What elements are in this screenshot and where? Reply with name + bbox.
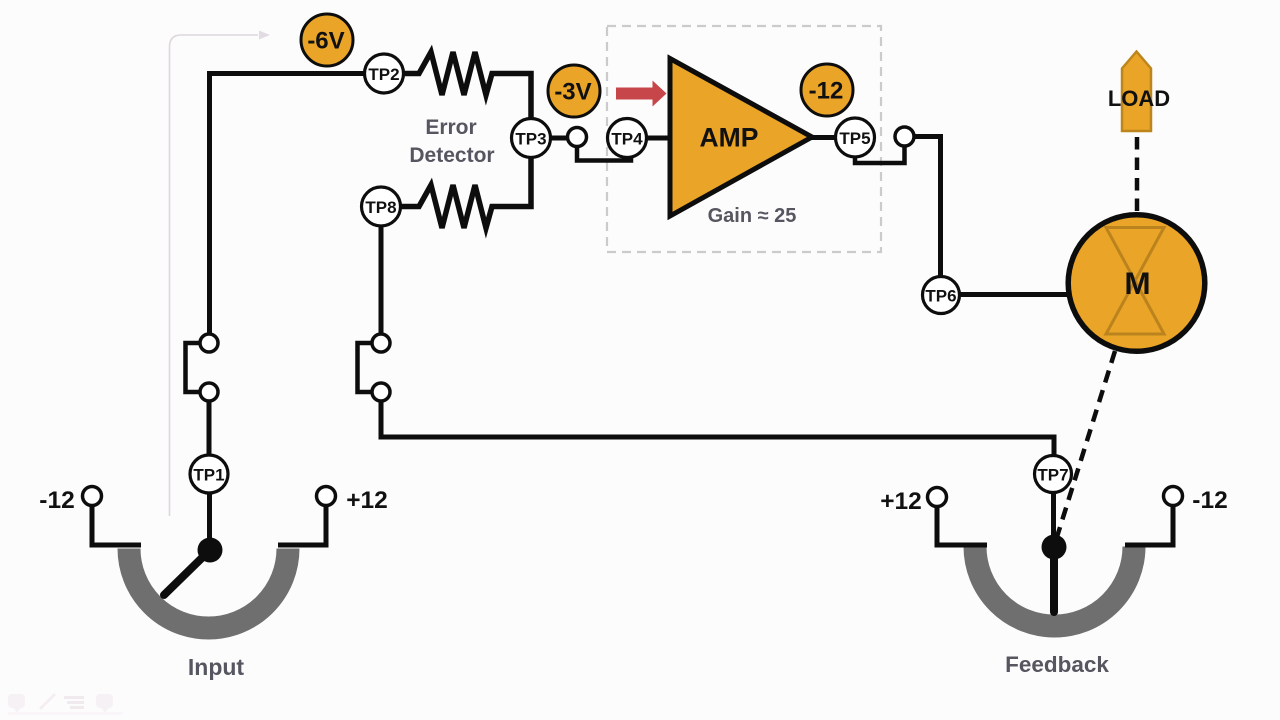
switch link S2 bracket (right) <box>358 343 373 392</box>
wire: TP7 to feedback wiper <box>1051 492 1056 544</box>
svg-text:Error: Error <box>425 116 476 139</box>
voltage label -12 <box>801 64 853 116</box>
svg-text:AMP: AMP <box>700 123 759 153</box>
test point TP2 <box>365 54 404 93</box>
wire: TP2 to left rail and down to input switch <box>210 74 365 335</box>
switch S2 contact bottom <box>372 383 390 401</box>
switch S1 contact bottom <box>200 383 218 401</box>
wire: S2 down and across to TP7 <box>381 401 1054 456</box>
resistor R2 (error detector lower) <box>401 157 531 228</box>
test point TP7 <box>1035 456 1072 493</box>
feedback terminal -12 wire <box>1125 503 1173 545</box>
wire: TP8 down to input link switch <box>379 227 384 335</box>
svg-text:Detector: Detector <box>409 144 494 167</box>
faint toolbar icons bottom-left <box>8 694 123 715</box>
wire: post B to TP6 <box>913 137 941 278</box>
switch link S1 bracket (left) <box>186 343 201 392</box>
LOAD arrow <box>1122 52 1151 132</box>
svg-text:TP5: TP5 <box>839 129 870 148</box>
svg-text:-12: -12 <box>809 78 844 105</box>
voltage label -3V <box>548 65 600 117</box>
input terminal -12 wire <box>92 503 141 545</box>
amplifier dashed enclosure <box>607 26 881 252</box>
svg-text:+12: +12 <box>880 488 922 515</box>
wire: TP1 to input wiper <box>207 492 212 548</box>
svg-text:-6V: -6V <box>307 28 344 55</box>
faint annotation swoosh arrow <box>170 31 271 517</box>
motor M <box>1068 215 1205 352</box>
svg-text:LOAD: LOAD <box>1108 86 1170 111</box>
svg-text:Input: Input <box>188 654 245 680</box>
svg-text:Gain ≈ 25: Gain ≈ 25 <box>708 205 797 227</box>
test point TP6 <box>923 277 960 314</box>
test point TP4 <box>608 119 647 158</box>
resistor R1 (error detector upper) <box>404 52 531 119</box>
svg-text:TP8: TP8 <box>365 198 396 217</box>
svg-text:TP2: TP2 <box>368 65 399 84</box>
test point TP5 <box>836 118 875 157</box>
input wiper hub <box>198 538 223 563</box>
op-amp U1 AMP triangle <box>670 59 812 217</box>
switch S1 contact top <box>200 334 218 352</box>
svg-text:-3V: -3V <box>554 79 591 106</box>
svg-text:TP4: TP4 <box>611 130 643 149</box>
switch S2 contact top <box>372 334 390 352</box>
feedback terminal +12 <box>928 488 947 507</box>
svg-text:TP7: TP7 <box>1037 466 1068 485</box>
wire: TP6 to motor <box>959 292 1070 297</box>
wire: TP4 to amplifier input <box>647 136 672 141</box>
test point TP1 <box>190 455 228 493</box>
input potentiometer arc <box>129 549 288 628</box>
svg-text:TP6: TP6 <box>925 287 956 306</box>
feedback potentiometer arc <box>975 547 1134 627</box>
signal arrow into amplifier <box>616 81 667 107</box>
feedback wiper lever <box>1050 548 1058 612</box>
jumper link B below TP5 <box>855 147 905 163</box>
wire: amplifier output to TP5 <box>810 135 836 140</box>
svg-text:TP1: TP1 <box>193 466 224 485</box>
motor rotor bowtie <box>1106 228 1164 335</box>
svg-text:Feedback: Feedback <box>1005 652 1109 677</box>
feedback terminal -12 <box>1164 487 1183 506</box>
svg-text:M: M <box>1124 265 1150 301</box>
voltage label -6V <box>301 14 353 66</box>
feedback terminal +12 wire <box>937 505 987 545</box>
svg-text:-12: -12 <box>39 487 74 514</box>
test point TP8 <box>362 187 401 226</box>
svg-text:TP3: TP3 <box>515 130 546 149</box>
input wiper lever <box>164 550 210 595</box>
dashed shaft: motor to feedback wiper <box>1056 351 1115 540</box>
wire: TP3 to jumper post A <box>551 136 567 141</box>
feedback wiper hub <box>1042 535 1067 560</box>
jumper post B <box>895 127 914 146</box>
wire: S1 to TP1 <box>207 401 212 456</box>
input terminal -12 <box>83 487 102 506</box>
svg-text:+12: +12 <box>346 487 388 514</box>
input terminal +12 wire <box>278 503 326 545</box>
test point TP3 <box>512 119 551 158</box>
dashed shaft: load to motor <box>1135 137 1140 213</box>
jumper post A <box>568 128 587 147</box>
jumper link A below TP4 <box>577 146 631 161</box>
svg-text:-12: -12 <box>1192 487 1227 514</box>
input terminal +12 <box>317 487 336 506</box>
